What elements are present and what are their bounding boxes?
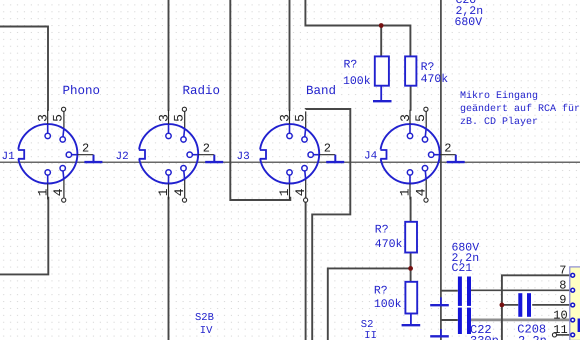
capacitor C208 <box>518 293 522 317</box>
ground on net at C21 <box>440 297 442 304</box>
svg-text:7: 7 <box>559 263 566 277</box>
svg-text:II: II <box>364 330 377 340</box>
svg-text:11: 11 <box>553 323 567 337</box>
connector J1 <box>16 110 103 200</box>
svg-text:R?: R? <box>374 285 388 298</box>
no-connect bubble pin 11 <box>552 333 556 337</box>
wire pin 11 stub <box>556 334 570 336</box>
pin 8 <box>571 288 575 292</box>
svg-text:470k: 470k <box>421 73 449 86</box>
wire R2 bottom to J4 pin3 <box>410 86 412 111</box>
resistor R? 470k (middle) <box>405 222 417 253</box>
ground under R? 100k <box>380 86 382 101</box>
wire C22 right to pin 10 <box>471 318 571 321</box>
pin 10 <box>571 318 575 322</box>
pin 9 <box>571 303 575 307</box>
connector J2 <box>137 110 224 200</box>
wire top feed to resistors <box>305 0 410 56</box>
wire J3 pin1 loop from top edge <box>230 0 290 200</box>
svg-text:J2: J2 <box>116 151 129 163</box>
junction dot C <box>500 303 505 308</box>
svg-text:J4: J4 <box>364 150 378 162</box>
wire J2 pin3 from top edge <box>168 0 170 111</box>
pin 7 <box>571 273 575 277</box>
svg-text:J1: J1 <box>2 151 16 163</box>
wire J3 pin5 loop <box>306 109 351 340</box>
svg-text:Mikro Eingang: Mikro Eingang <box>460 90 538 102</box>
wire C22 left stub <box>441 319 458 321</box>
wire C21 left stub <box>441 290 458 292</box>
wire J1 pin3 from left edge <box>0 27 48 111</box>
wire J1 pin1 to left edge <box>0 197 48 275</box>
svg-text:680V: 680V <box>455 16 483 29</box>
wire J3 pin4 to bottom edge <box>305 197 307 340</box>
connector J3 <box>258 110 345 200</box>
capacitor C22 <box>458 308 462 334</box>
svg-text:geändert auf RCA für: geändert auf RCA für <box>460 103 580 115</box>
svg-text:IV: IV <box>200 325 213 337</box>
connector J4 <box>378 110 465 200</box>
wire C208 left to junction <box>502 304 518 306</box>
wire R1 top lead <box>380 26 382 57</box>
svg-text:10: 10 <box>553 308 567 322</box>
junction dot A <box>379 23 384 28</box>
svg-text:8: 8 <box>559 278 566 292</box>
svg-text:2,2n: 2,2n <box>518 334 547 340</box>
svg-text:Radio: Radio <box>183 84 221 98</box>
resistor R? 100k (lower) <box>405 282 417 314</box>
wire pin 7 branch <box>502 275 571 340</box>
svg-text:100k: 100k <box>374 298 402 311</box>
resistor R? 470k (top) <box>405 56 416 85</box>
svg-text:470k: 470k <box>375 238 403 251</box>
svg-text:Band: Band <box>306 84 336 98</box>
svg-text:330p: 330p <box>470 334 499 340</box>
junction dot B <box>408 266 413 271</box>
wire pin 9 to C208 <box>532 304 570 306</box>
pin 11 <box>571 333 575 337</box>
wire branch left from junction <box>328 268 411 340</box>
ground on net at C22 <box>440 329 442 336</box>
capacitor C21 <box>458 277 462 306</box>
connector P? (edge, yellow body) <box>570 267 580 340</box>
wire R3 to R4 <box>410 253 412 282</box>
wire C21 right to pin 8 <box>471 289 571 291</box>
svg-text:R?: R? <box>375 223 389 236</box>
svg-text:C21: C21 <box>452 262 473 275</box>
wire J4 pin1 to R3 <box>410 197 412 222</box>
svg-text:Phono: Phono <box>63 84 101 98</box>
svg-text:100k: 100k <box>343 75 371 88</box>
svg-text:9: 9 <box>559 293 566 307</box>
connector bracket graphic <box>578 319 580 333</box>
svg-text:J3: J3 <box>237 151 250 163</box>
resistor R? 100k (top) <box>375 56 389 85</box>
svg-text:S2B: S2B <box>195 312 214 324</box>
wire long vertical net <box>440 0 442 340</box>
wire J2 pin1 to bottom edge <box>168 197 170 340</box>
long horizontal net <box>0 161 580 163</box>
wire J3 pin3 from top edge <box>289 0 291 111</box>
svg-text:zB. CD Player: zB. CD Player <box>460 116 538 128</box>
ground under lower R? 100k <box>410 314 412 325</box>
svg-text:R?: R? <box>344 59 358 72</box>
